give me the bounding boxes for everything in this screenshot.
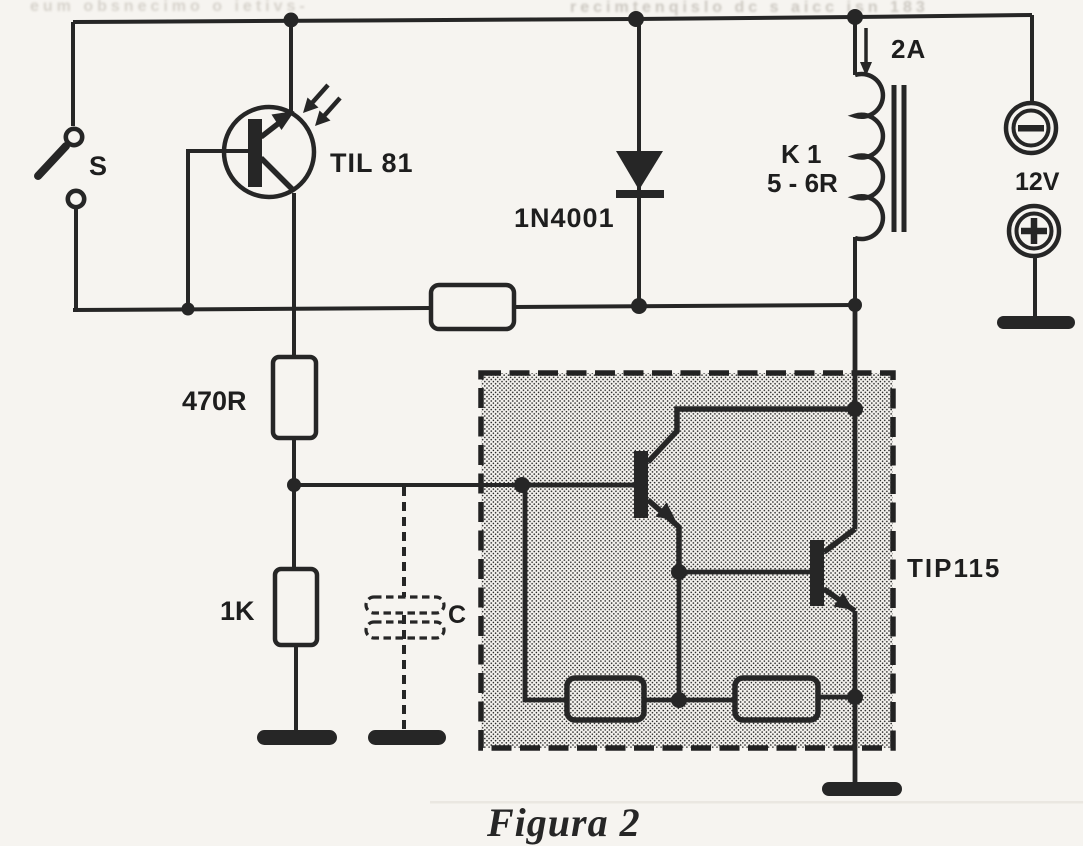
- ground TIP115: [822, 782, 902, 796]
- transistor Q2 base bar: [810, 540, 824, 606]
- node dot Q1 emitter: [671, 564, 687, 580]
- svg-text:recimtenqislo dc s aicc isn 1: recimtenqislo dc s aicc isn 183: [570, 0, 929, 16]
- wire R2 to emitter node: [818, 695, 855, 700]
- wire to TIP115 ground: [853, 697, 858, 784]
- wire node to box: [294, 483, 522, 487]
- svg-text:S: S: [89, 151, 107, 181]
- battery positive terminal outer: [1009, 206, 1059, 256]
- svg-text:TIP115: TIP115: [907, 553, 1001, 583]
- wire node down to 1K: [294, 485, 296, 569]
- wire box input: [522, 483, 634, 488]
- node dot top rail / relay: [847, 9, 863, 25]
- node dot Q2 emitter: [847, 689, 863, 705]
- transistor Q1 base bar: [634, 451, 648, 518]
- svg-text:K 1: K 1: [781, 139, 821, 169]
- switch S top contact: [66, 129, 82, 145]
- transistor Q1 emitter: [648, 500, 679, 572]
- resistor 470R: [273, 357, 316, 438]
- diode 1N4001 cathode bar: [616, 190, 664, 198]
- relay K1 coil top wire: [853, 17, 857, 75]
- wire box input down to R1: [525, 485, 567, 700]
- diode 1N4001 triangle: [616, 151, 663, 190]
- battery positive terminal inner: [1017, 214, 1052, 249]
- battery negative sign: [1018, 125, 1044, 132]
- resistor R1 inside TIP115: [567, 678, 644, 720]
- TIL81 light arrow 1: [312, 85, 328, 103]
- relay K1 coil: [855, 74, 883, 239]
- capacitor C dashed lead: [402, 487, 406, 597]
- svg-text:Figura 2: Figura 2: [486, 800, 641, 845]
- svg-text:C: C: [448, 601, 466, 629]
- phototransistor TIL81 body: [224, 107, 314, 197]
- wire bottom rail right segment: [514, 305, 855, 307]
- node dot divider: [287, 478, 301, 492]
- svg-text:TIL 81: TIL 81: [330, 148, 414, 178]
- switch S bottom contact: [68, 191, 84, 207]
- ground battery: [997, 316, 1075, 329]
- wire Q1 emitter down to resistor node: [677, 572, 682, 700]
- relay K1 core line 1: [892, 85, 897, 232]
- capacitor C dashed lead lower: [402, 615, 406, 733]
- wire collector rail into box: [853, 305, 858, 529]
- svg-text:2A: 2A: [891, 34, 926, 64]
- transistor Q1 collector: [648, 409, 855, 462]
- battery wire to ground: [1033, 254, 1037, 318]
- diode 1N4001 wire: [637, 19, 641, 307]
- transistor Q1 emitter arrowhead: [656, 503, 677, 522]
- ghost crease line: [430, 801, 1083, 804]
- wire 470R to node: [292, 438, 296, 485]
- wire switch to bottom rail: [73, 208, 76, 310]
- TIL81 collector arrowhead: [272, 111, 295, 130]
- svg-text:eum obsnecimo o ietivs-: eum obsnecimo o ietivs-: [30, 0, 309, 15]
- switch S lever: [38, 146, 66, 176]
- battery negative terminal inner: [1014, 111, 1049, 146]
- TIL81 base wire: [188, 151, 248, 307]
- resistor R2 inside TIP115: [735, 678, 818, 720]
- TIP115 dashed box border: [481, 373, 893, 748]
- svg-text:5 - 6R: 5 - 6R: [767, 168, 838, 198]
- node dot Q1 collector rail: [847, 401, 863, 417]
- wire top rail to battery: [1030, 15, 1034, 105]
- node dot top rail / diode: [628, 11, 644, 27]
- svg-text:1K: 1K: [220, 596, 255, 626]
- relay K1 coil bottom wire: [853, 237, 857, 307]
- svg-text:12V: 12V: [1015, 168, 1060, 196]
- node dot box input: [514, 477, 530, 493]
- TIL81 collector diagonal: [261, 116, 288, 137]
- node dot bottom rail / base: [182, 303, 195, 316]
- capacitor C plate 2: [366, 622, 444, 638]
- transistor Q2 emitter arrowhead: [834, 593, 854, 611]
- wire bottom rail left segment: [73, 308, 431, 310]
- wire Q1 emitter to Q2 base: [679, 570, 810, 575]
- transistor Q2 emitter: [824, 589, 855, 611]
- TIL81 light arrow 2: [324, 98, 340, 116]
- relay K1 core line 2: [902, 85, 907, 232]
- TIP115 internal box shaded fill: [481, 373, 893, 748]
- node dot bottom rail / relay: [848, 298, 862, 312]
- svg-text:1N4001: 1N4001: [514, 203, 615, 233]
- wire R1 to node: [644, 698, 679, 703]
- wire top rail: [73, 15, 1032, 22]
- wire node to R2: [679, 698, 735, 703]
- transistor Q2 collector: [824, 529, 855, 552]
- resistor (unlabeled, bottom rail): [431, 285, 514, 329]
- capacitor C plate 1: [366, 597, 444, 613]
- node dot resistor junction: [671, 692, 687, 708]
- node dot top rail / TIL81 collector: [284, 13, 299, 28]
- wire left drop to switch: [71, 22, 75, 126]
- battery positive sign: [1021, 218, 1047, 244]
- svg-text:470R: 470R: [182, 386, 247, 416]
- wire Q2 emitter down: [853, 611, 858, 697]
- battery negative terminal outer: [1006, 103, 1056, 153]
- TIL81 base bar: [248, 119, 262, 187]
- current arrow 2A: [864, 28, 868, 64]
- wire 1K to ground: [294, 645, 298, 733]
- ground capacitor: [368, 730, 446, 745]
- TIL81 emitter diagonal: [261, 158, 293, 190]
- node dot bottom rail / diode: [631, 298, 647, 314]
- TIL81 emitter wire down: [292, 193, 296, 357]
- resistor 1K: [275, 569, 317, 645]
- ground 1K: [257, 730, 337, 745]
- TIL81 collector wire to top rail: [289, 20, 293, 114]
